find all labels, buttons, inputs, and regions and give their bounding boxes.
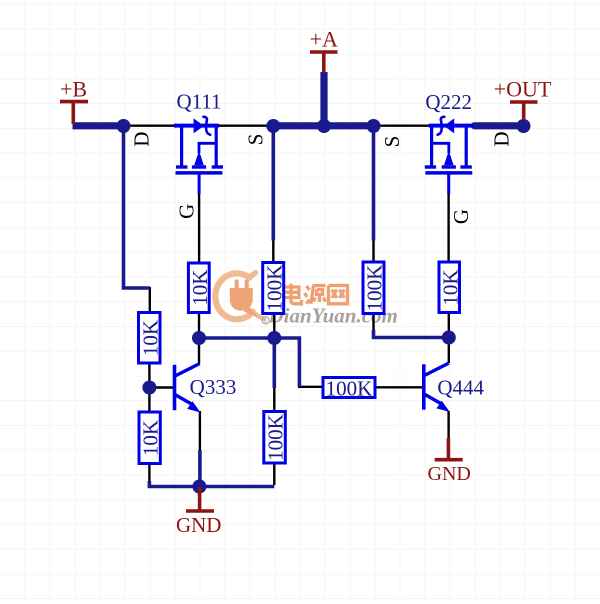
wire: thick bus +A vertical [320,72,327,126]
resistor R4 10K [438,262,462,313]
ground GND left [186,487,214,511]
svg-text:+B: +B [60,77,87,102]
wire: R6 bottom pin [148,464,150,484]
junction node S of Q222 [367,119,381,133]
wire: R8 right pin to Q444 base [374,386,423,388]
wire: R7 bottom segment black [273,387,275,412]
wire: thick bus to +OUT [475,122,524,129]
watermark plug body [230,288,253,311]
wire: navy drop dot S to R2 [271,126,275,241]
watermark chinese char wang [329,286,348,304]
svg-text:10K: 10K [438,269,462,305]
resistor R6 10K lower left [139,412,163,464]
wire: navy left drop from dot1 [124,126,150,288]
wire: Q333 base wire [149,386,174,388]
watermark registered mark [262,317,269,325]
wire: rail black segment dot1 to Q111 [122,124,175,126]
wire: Q333 collector vertical [198,338,200,364]
mosfet Q111 [174,117,223,194]
svg-text:10K: 10K [188,270,212,306]
wire: elbow horizontal to R8 left [298,386,324,388]
resistor R3 100K [363,262,387,314]
junction node mid rail right [267,331,281,345]
terminal +B [60,102,88,124]
terminal +A [310,52,338,73]
transistor Q444 (copy of Q333) [424,363,450,412]
svg-text:+A: +A [310,26,338,51]
svg-text:Q111: Q111 [176,89,221,113]
junction node mid rail left [192,331,206,345]
wire: R7 bottom pin [273,463,275,485]
wire: R5 bottom pin to base dot [148,363,150,389]
watermark logo ring [215,273,263,320]
junction node S of Q111 [266,119,280,133]
wire: Q444 collector vertical [448,338,450,364]
resistor R8 100K horizontal [323,376,375,400]
svg-text:100K: 100K [264,414,288,461]
junction node +OUT rail [517,119,531,133]
wire: R3 top pin black [372,239,374,262]
watermark plug prongs [235,279,249,289]
resistor R1 10K [188,263,212,313]
wire: R4 bottom pin to right mid rail [448,313,450,338]
wire: dot down to R6 top [148,388,150,413]
svg-text:R: R [264,319,268,325]
wire: mid rail navy [199,336,274,340]
svg-text:D: D [490,131,514,146]
svg-text:GND: GND [428,463,471,485]
wire: Q333 emitter black segment [199,411,201,452]
resistor R7 100K lower middle [264,412,288,464]
svg-text:10K: 10K [138,320,162,356]
svg-text:+OUT: +OUT [494,77,552,102]
wire: thick bus S rail [271,122,376,129]
svg-text:S: S [244,134,268,146]
wire: gate Q222 down to R4 [447,193,449,262]
wire: R2 top pin black [272,239,274,263]
svg-text:Q333: Q333 [190,375,237,399]
junction node bottom rail GND [192,480,206,494]
svg-text:GND: GND [176,513,222,537]
watermark chinese char dian [283,284,302,304]
junction node dot1 +B rail [117,119,131,133]
svg-text:S: S [380,136,404,148]
ground GND right [435,438,463,460]
svg-text:D: D [130,132,154,147]
resistor R2 100K [262,263,286,314]
wire: right mid rail navy [374,330,449,338]
wire: navy drop mid dot to R7 [272,338,276,388]
wire: navy drop dot to R3 [372,126,376,241]
transistor Q333 [175,364,201,413]
wire: R3 bottom pin black [372,314,374,333]
junction node Q444 collector [442,331,456,345]
junction node Q333 base [142,381,156,395]
wire: navy elbow right of mid rail [274,338,299,387]
svg-text:G: G [449,209,473,224]
watermark plug cord tail [244,306,259,318]
wire: bottom rail navy [149,481,274,487]
svg-text:10K: 10K [139,420,163,456]
svg-text:100K: 100K [363,265,387,312]
junction node +A rail [317,119,331,133]
wire: thick bus +B to dot1 [73,122,125,129]
wire: R2 bottom pin to mid rail [273,314,275,339]
terminal +OUT [510,102,538,120]
svg-text:100K: 100K [262,265,286,312]
wire: rail black segment Q111 to dot S [218,124,274,126]
wire: Q444 emitter black segment [447,411,449,439]
wire: gate Q111 down to R1 [198,193,200,263]
watermark chinese char yuan [305,286,326,304]
wire: R1 bottom pin to mid rail [198,312,200,338]
svg-text:Q222: Q222 [425,90,472,114]
svg-text:G: G [175,204,199,219]
resistor R5 10K upper left [138,313,162,364]
svg-text:Q444: Q444 [437,376,484,400]
wire: rail black segment dot to Q222 [373,124,431,126]
wire: jog corner down to R5 top [149,287,151,313]
mosfet Q222 (mirror of Q111) [425,117,474,194]
svg-text:100K: 100K [326,376,373,400]
wire: Q333 emitter navy segment [198,450,202,487]
